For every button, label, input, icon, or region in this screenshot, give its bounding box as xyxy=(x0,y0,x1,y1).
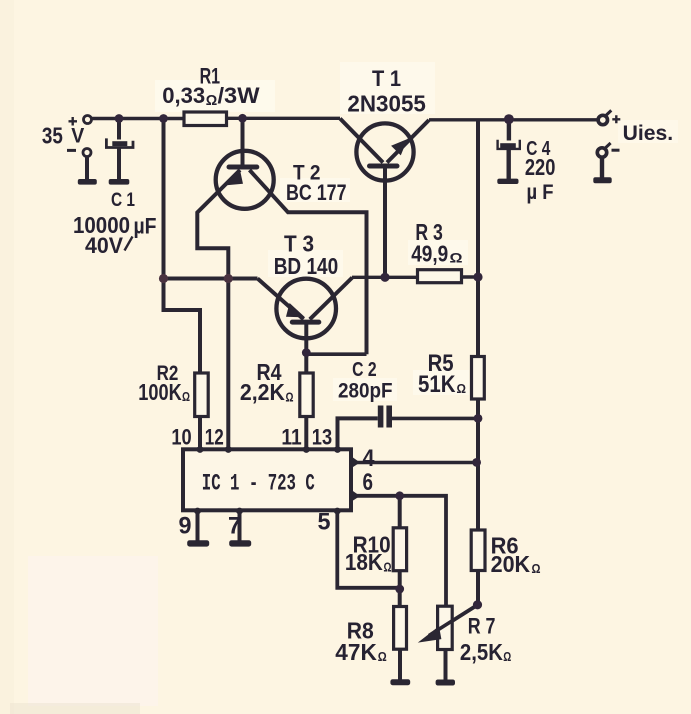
R7 wiper line over body xyxy=(429,605,478,636)
wire R8 bottom to ground xyxy=(398,649,402,680)
wire R3 horizontal xyxy=(352,276,418,279)
wire pin 12 vertical xyxy=(226,279,230,451)
input plus terminal xyxy=(84,116,92,124)
svg-text:10: 10 xyxy=(171,425,191,450)
wire T1 collector diagonal xyxy=(340,119,383,163)
wire pin 5 down and right xyxy=(337,511,399,588)
IC1 box xyxy=(183,449,351,510)
R7 ground bar xyxy=(436,680,455,686)
junction dot pin4 rail xyxy=(472,458,481,467)
transistor T2 circle xyxy=(216,151,274,209)
svg-text:18K: 18K xyxy=(345,549,383,575)
svg-text:0,33: 0,33 xyxy=(162,83,205,108)
wire T3 base to T2 collector link xyxy=(306,352,366,356)
wire C1 drop from rail xyxy=(117,119,121,140)
svg-text:/3W: /3W xyxy=(218,83,261,108)
wire R2 jog from left rail xyxy=(164,279,201,374)
stray tick after 40V xyxy=(125,237,133,251)
wire T2 base drop xyxy=(241,118,245,165)
capacitor C4 solid plate xyxy=(500,143,516,149)
input minus sign xyxy=(67,149,76,152)
IC pin 7 ground bar xyxy=(229,540,251,546)
wire mid horizontal xyxy=(164,277,258,281)
R8 ground bar xyxy=(390,679,410,685)
transistor T3 base bar xyxy=(292,320,319,325)
IC pad pin4 xyxy=(352,457,361,469)
resistor R10 xyxy=(393,528,406,571)
wire R3 right to rail xyxy=(462,275,479,278)
svg-text:100K: 100K xyxy=(138,379,181,405)
svg-text:Ω: Ω xyxy=(450,251,463,266)
wire R10 bottom xyxy=(398,571,402,589)
wire T3 collector diagonal xyxy=(310,278,353,320)
svg-text:13: 13 xyxy=(312,425,332,450)
svg-text:9: 9 xyxy=(179,513,192,540)
output minus sign xyxy=(612,149,620,152)
resistor R5 xyxy=(472,357,485,400)
svg-text:6: 6 xyxy=(363,469,374,496)
svg-text:40V: 40V xyxy=(85,233,123,258)
IC pad pin12 xyxy=(225,446,232,453)
input plus sign xyxy=(69,117,78,126)
capacitor C4 bracket plate xyxy=(498,140,520,149)
resistor R6 xyxy=(471,530,485,571)
transistor T3 emitter arrow (PNP, points to base) xyxy=(287,305,303,317)
wire T2 emitter bend path xyxy=(197,170,240,279)
svg-text:280pF: 280pF xyxy=(338,379,393,403)
wire top rail middle segment xyxy=(227,117,341,120)
svg-text:Uies.: Uies. xyxy=(623,121,674,145)
svg-text:Ω: Ω xyxy=(378,649,387,664)
transistor T1 circle xyxy=(356,123,413,180)
transistor T1 emitter arrow xyxy=(393,141,407,155)
wire R6 bottom xyxy=(476,571,480,605)
capacitor C4 foot bar xyxy=(497,179,518,184)
IC pad pin11 xyxy=(303,446,310,453)
IC pad pin10 xyxy=(197,446,204,453)
wire R7 bottom to ground xyxy=(444,650,448,681)
IC pin 9 ground bar xyxy=(187,540,209,546)
wire C4 drop xyxy=(507,119,511,140)
wire T3 emitter diagonal xyxy=(258,279,304,320)
svg-text:Ω: Ω xyxy=(532,561,541,576)
junction dot T2 base tap xyxy=(238,114,247,123)
IC pad pin13 xyxy=(334,446,341,453)
output minus foot bar xyxy=(593,177,611,183)
IC pad pin6 xyxy=(352,490,361,502)
svg-text:Ω: Ω xyxy=(503,649,511,664)
output plus terminal xyxy=(598,115,607,124)
wire R5 rail upper xyxy=(476,120,480,356)
junction dot C2 right rail xyxy=(474,414,483,423)
resistor R3 xyxy=(418,270,462,283)
resistor R8 xyxy=(394,607,407,650)
wire output minus stub xyxy=(600,158,604,178)
junction dot R6 bottom / R7 wiper xyxy=(473,600,482,609)
svg-text:2N3055: 2N3055 xyxy=(347,90,426,116)
svg-text:Ω: Ω xyxy=(182,390,190,404)
svg-text:Ω: Ω xyxy=(384,561,392,575)
R7 wiper arrowhead xyxy=(421,628,441,642)
svg-text:2,5K: 2,5K xyxy=(460,639,503,665)
junction dot left rail mid xyxy=(159,274,168,283)
junction dot left rail tap xyxy=(159,114,168,123)
wire C2 right to rail xyxy=(392,417,478,421)
junction dot T2 emitter joint xyxy=(224,274,233,283)
svg-text:5: 5 xyxy=(318,509,331,536)
svg-text:BD 140: BD 140 xyxy=(274,253,339,279)
junction dot R10 top xyxy=(395,491,404,500)
transistor T3 circle xyxy=(276,279,336,339)
svg-text:R 7: R 7 xyxy=(468,614,496,639)
wire T2 collector path xyxy=(250,170,367,354)
IC pad pin9 xyxy=(194,508,201,515)
svg-text:2,2K: 2,2K xyxy=(240,379,285,405)
transistor T2 emitter arrow xyxy=(226,172,242,185)
transistor T2 base bar xyxy=(229,165,257,170)
capacitor C2 right plate xyxy=(386,406,392,428)
capacitor C1 solid plate xyxy=(112,141,127,146)
junction dot R10 bottom / pin5 xyxy=(395,585,404,594)
wire R7 wiper diagonal xyxy=(431,605,477,634)
IC pad pin7 xyxy=(236,508,243,515)
capacitor C1 bracket plate xyxy=(106,138,133,147)
wire pin 13 to C2 xyxy=(338,418,378,450)
wire R4 bottom to IC pin 11 xyxy=(304,417,308,451)
capacitor C2 left plate xyxy=(378,406,384,428)
svg-text:Ω: Ω xyxy=(206,93,218,109)
output minus terminal xyxy=(597,148,606,157)
svg-text:C 1: C 1 xyxy=(111,189,135,211)
output plus slash xyxy=(605,110,611,116)
wire R8 top xyxy=(398,589,402,607)
svg-text:11: 11 xyxy=(281,425,301,450)
svg-text:V: V xyxy=(71,125,84,148)
svg-text:47K: 47K xyxy=(335,639,377,665)
svg-text:T 1: T 1 xyxy=(372,66,401,91)
svg-text:35: 35 xyxy=(42,122,63,148)
svg-text:20K: 20K xyxy=(491,551,531,577)
svg-text:BC 177: BC 177 xyxy=(286,180,347,205)
wire R2 bottom to IC pin 10 xyxy=(198,417,202,451)
resistor R7 (potentiometer body) xyxy=(438,606,453,649)
junction dot C4 tap xyxy=(504,114,514,124)
wire T3 base down xyxy=(304,324,308,373)
svg-text:IC 1 - 723 C: IC 1 - 723 C xyxy=(202,470,315,496)
wire IC pin 7 stub xyxy=(238,510,242,541)
svg-text:µF: µF xyxy=(134,214,157,239)
svg-text:4: 4 xyxy=(363,445,376,472)
resistor R1 xyxy=(184,112,227,126)
output minus slash xyxy=(605,143,611,149)
output plus sign xyxy=(612,115,620,123)
wire top rail left segment xyxy=(92,117,184,120)
svg-text:µ F: µ F xyxy=(527,180,554,204)
junction dot R3 right rail xyxy=(473,272,482,281)
wire left rail down xyxy=(162,119,166,279)
wire minus terminal stub xyxy=(85,157,89,180)
wire IC pin 9 stub xyxy=(196,510,200,541)
input minus ground bar xyxy=(78,179,97,185)
wire T1 base down xyxy=(383,168,387,277)
junction dot C1 tap xyxy=(115,114,124,123)
junction dot T1 base joint xyxy=(380,273,389,282)
capacitor C1 ground bar xyxy=(109,179,130,185)
junction dot T3 base joint xyxy=(302,348,311,357)
resistor R4 xyxy=(300,373,313,417)
wire C4 to foot xyxy=(507,149,511,180)
wire T1 emitter diagonal xyxy=(387,120,429,163)
svg-text:12: 12 xyxy=(205,425,224,450)
transistor T1 base bar xyxy=(370,164,398,169)
svg-text:220: 220 xyxy=(525,154,556,180)
input minus terminal xyxy=(83,149,91,157)
svg-text:7: 7 xyxy=(228,513,241,540)
wire pin 4 horizontal xyxy=(352,461,477,465)
wire R10 top drop xyxy=(398,496,402,528)
wire C1 to ground xyxy=(117,148,121,180)
resistor R2 xyxy=(195,373,209,417)
wire top rail right segment xyxy=(429,118,598,121)
svg-text:Ω: Ω xyxy=(457,381,467,396)
IC pad pin5 xyxy=(334,508,341,515)
wire R5 rail lower xyxy=(476,399,480,530)
wire pin 6 horizontal and down to R7 xyxy=(352,496,446,606)
svg-text:51K: 51K xyxy=(418,371,456,398)
svg-text:49,9: 49,9 xyxy=(411,241,448,267)
svg-text:Ω: Ω xyxy=(286,391,294,405)
